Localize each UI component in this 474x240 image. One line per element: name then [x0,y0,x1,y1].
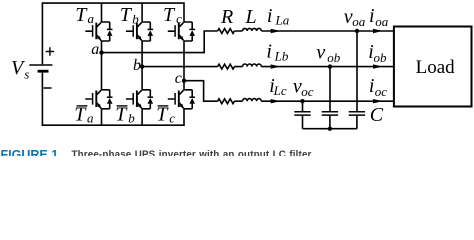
svg-text:ob: ob [327,50,341,65]
svg-text:i: i [369,5,375,27]
svg-text:a: a [91,41,99,58]
svg-text:Lc: Lc [273,83,287,98]
svg-text:T: T [156,104,169,126]
svg-text:T: T [74,104,87,126]
svg-text:c: c [175,70,182,87]
svg-text:T: T [75,4,88,26]
svg-text:oa: oa [352,14,366,29]
svg-text:v: v [316,41,325,63]
svg-text:Three-phase UPS inverter with: Three-phase UPS inverter with an output … [72,149,314,156]
svg-text:oc: oc [375,84,388,99]
svg-text:c: c [169,111,175,126]
svg-text:Load: Load [416,57,456,78]
svg-text:La: La [275,13,290,28]
svg-text:b: b [128,111,135,126]
svg-text:i: i [266,41,272,63]
svg-text:ob: ob [374,50,388,65]
svg-text:i: i [369,75,375,97]
svg-text:i: i [267,5,273,27]
svg-text:a: a [87,111,94,126]
svg-text:T: T [115,104,128,126]
svg-text:b: b [132,11,139,26]
svg-text:T: T [120,4,133,26]
svg-text:s: s [24,67,29,82]
svg-text:a: a [88,11,95,26]
svg-text:R: R [220,6,233,28]
svg-text:oa: oa [375,14,389,29]
svg-text:Lb: Lb [274,49,289,64]
svg-text:T: T [163,4,176,26]
svg-text:L: L [245,6,257,28]
svg-text:FIGURE 1.: FIGURE 1. [1,148,62,156]
svg-text:c: c [176,11,182,26]
svg-text:C: C [370,104,384,126]
svg-text:oc: oc [301,84,314,99]
svg-text:b: b [133,57,141,74]
